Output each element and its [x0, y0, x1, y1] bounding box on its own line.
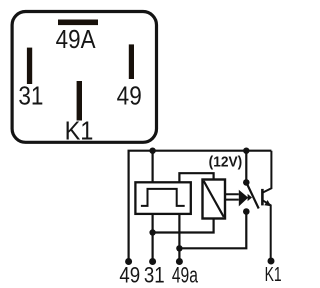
svg-text:K1: K1 [265, 262, 282, 285]
relay coil K1 [203, 180, 226, 219]
svg-text:31: 31 [144, 264, 165, 288]
svg-text:31: 31 [18, 82, 43, 111]
oscillator block U1 [135, 182, 190, 214]
pin 49 (right blade) [129, 44, 134, 79]
wire rail to contact top [245, 151, 247, 183]
pin 31 (left blade) [27, 48, 32, 84]
svg-text:49: 49 [117, 82, 142, 111]
actuator arrow shaft [225, 194, 239, 199]
pin K1 (center blade) [77, 81, 82, 121]
wire 31 branch to coil bottom [153, 219, 214, 233]
terminal K1 [268, 258, 275, 265]
wire oscillator bottom to terminal 49a [178, 214, 180, 262]
transistor Q1 emitter arrowhead [264, 200, 271, 206]
contact top terminal [243, 179, 250, 186]
transistor Q1 base bar [261, 189, 264, 206]
wire oscillator output to coil top [179, 173, 213, 182]
svg-text:49A: 49A [56, 26, 97, 55]
node 49a branch junction [176, 245, 182, 251]
wire top supply rail [129, 151, 272, 262]
relay body outline [12, 12, 156, 143]
transistor Q1 collector wire [263, 151, 272, 193]
node 31 branch junction [149, 229, 155, 235]
wire oscillator bottom to terminal 31 [152, 214, 154, 262]
terminal 49 [125, 258, 132, 265]
transistor Q1 emitter wire [263, 200, 271, 261]
node rail-contact junction [243, 148, 249, 154]
svg-text:49: 49 [119, 264, 140, 288]
contact bottom terminal [243, 208, 250, 215]
wire 49a branch to contact bottom [179, 213, 246, 248]
terminal 31 [149, 258, 156, 265]
svg-text:K1: K1 [65, 116, 94, 145]
svg-text:49a: 49a [172, 264, 198, 288]
terminal 49a [176, 258, 183, 265]
actuator arrowhead [239, 190, 248, 207]
svg-text:(12V): (12V) [209, 154, 243, 170]
node rail-oscillator junction [149, 148, 155, 154]
square-wave symbol [141, 189, 185, 206]
wire rail to oscillator top [152, 151, 154, 183]
contact lever [246, 182, 258, 208]
actuator arrowhead second wedge [248, 194, 252, 201]
pin 49A (top blade) [58, 20, 98, 26]
coil diagonal [204, 181, 224, 217]
